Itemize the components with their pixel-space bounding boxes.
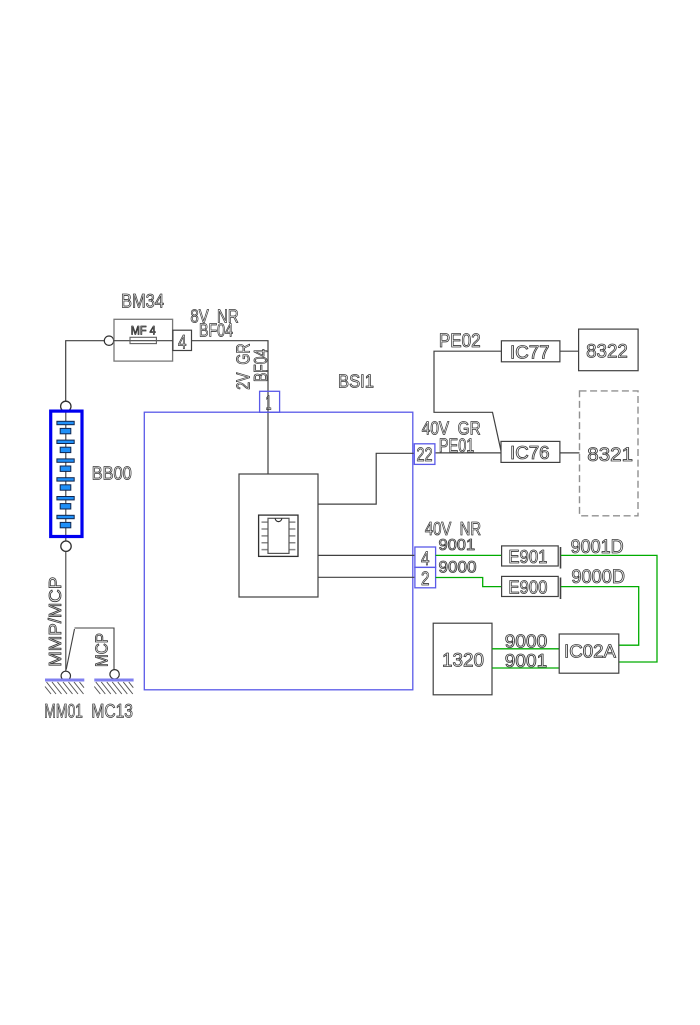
- battery BB00: [51, 401, 82, 551]
- svg-text:E901: E901: [508, 546, 547, 567]
- pin 1 of BSI1: [260, 391, 280, 414]
- svg-text:22: 22: [417, 445, 433, 466]
- svg-text:PE01: PE01: [439, 436, 474, 457]
- svg-text:BF04: BF04: [251, 349, 271, 382]
- svg-text:1: 1: [266, 393, 272, 415]
- wire branch PE02/PE01: [434, 351, 501, 452]
- wire 9000 pin2 to E900: [436, 578, 502, 587]
- svg-text:PE02: PE02: [439, 331, 481, 352]
- ground hatching MC13: [94, 682, 133, 694]
- component 1320: [433, 623, 492, 695]
- pin 4 of BM34: [173, 330, 192, 353]
- svg-text:8322: 8322: [586, 341, 628, 363]
- connector IC77: [501, 341, 560, 363]
- ground bar MC13: [94, 679, 133, 682]
- wire BM34 to pin 1 of BSI1: [192, 341, 269, 474]
- pin 2 of BSI1: [415, 567, 436, 590]
- svg-text:IC77: IC77: [510, 341, 550, 362]
- svg-text:MC13: MC13: [91, 701, 132, 722]
- fuse box BM34: [114, 319, 173, 361]
- wire IC77 to 8322: [560, 350, 579, 352]
- internal unit box inside BSI1: [239, 474, 318, 597]
- pin 22 of BSI1: [414, 444, 435, 466]
- svg-text:IC02A: IC02A: [564, 640, 617, 661]
- svg-text:MF 4: MF 4: [131, 325, 157, 337]
- wire battery to BM34: [66, 341, 105, 402]
- wire 9000D E900 to IC02A: [561, 587, 639, 646]
- svg-text:4: 4: [421, 548, 430, 570]
- wire 9001 1320 to IC02A: [492, 667, 559, 669]
- fuse MF4 symbol: [130, 337, 156, 343]
- component 8321 (dashed): [580, 391, 639, 516]
- svg-text:MM01: MM01: [44, 701, 83, 722]
- ground node MM01: [61, 671, 70, 680]
- svg-text:9000: 9000: [439, 559, 477, 577]
- wire IC76 to 8321: [560, 452, 580, 454]
- svg-text:4: 4: [178, 333, 187, 354]
- connector IC76: [501, 441, 560, 463]
- wire pin22 to IC76: [436, 452, 501, 454]
- wire 9001 pin4 to E901: [436, 554, 502, 556]
- IC chip symbol: [259, 515, 298, 556]
- svg-text:1320: 1320: [442, 650, 484, 672]
- connector E901: [502, 546, 561, 569]
- svg-text:IC76: IC76: [510, 442, 550, 463]
- component 8322: [579, 329, 639, 371]
- pin 4 of BSI1: [415, 547, 436, 570]
- svg-text:9001: 9001: [439, 537, 476, 554]
- ground node MC13: [110, 670, 119, 679]
- svg-text:MMP/MCP: MMP/MCP: [45, 577, 65, 667]
- wire 9000 1320 to IC02A: [492, 648, 559, 650]
- svg-text:BF04: BF04: [199, 319, 233, 340]
- svg-text:9000: 9000: [505, 632, 547, 652]
- svg-text:BB00: BB00: [92, 462, 132, 483]
- wire battery to ground MM01: [65, 551, 67, 671]
- svg-text:8321: 8321: [587, 444, 633, 466]
- switch MMP/MCP link: [66, 628, 114, 670]
- wire through fuse: [114, 340, 173, 342]
- connector IC02A: [559, 634, 619, 673]
- svg-text:9001: 9001: [505, 651, 547, 671]
- svg-text:BSI1: BSI1: [338, 371, 374, 392]
- svg-text:9000D: 9000D: [571, 567, 625, 588]
- node connector circle at BM34 input: [104, 336, 113, 345]
- wire internal unit to pin 22: [318, 453, 414, 504]
- wire internal unit to pin 4: [318, 554, 415, 556]
- wire internal unit to pin 2: [318, 576, 415, 578]
- BSI1 box: [144, 412, 413, 690]
- svg-text:E900: E900: [508, 577, 547, 598]
- ground bar MM01: [45, 679, 84, 682]
- ground hatching MM01: [45, 682, 84, 694]
- wire 9001D E901 to IC02A: [561, 555, 657, 662]
- svg-text:MCP: MCP: [92, 633, 112, 667]
- svg-text:2: 2: [421, 568, 430, 590]
- connector E900: [502, 576, 561, 599]
- svg-text:40V NR: 40V NR: [425, 518, 481, 539]
- svg-text:BM34: BM34: [121, 292, 164, 313]
